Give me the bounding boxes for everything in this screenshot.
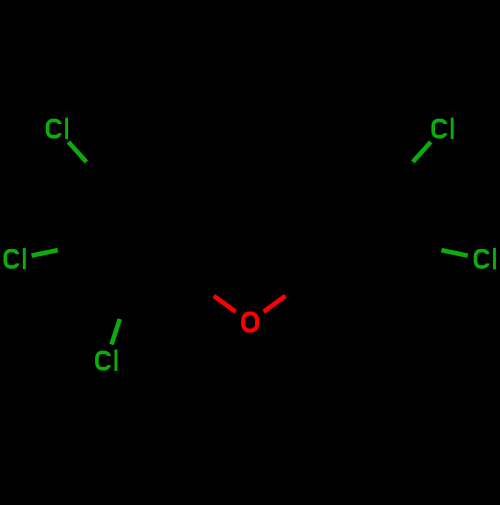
bond C-Cl1 (top-left): carbon half, black — [86, 162, 102, 180]
bond C-Cl5 (right): carbon half, black — [418, 245, 442, 250]
bond C8-C7 (left ring) — [81, 245, 127, 296]
atom label Cl (Cl1 top-left) — [48, 118, 68, 139]
bond C-Cl3 (bottom-left): carbon half, black — [120, 296, 127, 319]
bond C7-C6a (left ring) — [127, 282, 194, 296]
bond O-C (left): carbon half, black — [194, 282, 214, 296]
atom label O (furan oxygen) — [243, 314, 257, 331]
bond C6a-C9b fusion (left ring) — [194, 217, 215, 282]
bond C-Cl5 (right): chlorine half, green — [441, 250, 467, 256]
atom label Cl (Cl3 bottom-left) — [97, 350, 117, 371]
bond C1-C2 (right ring) — [397, 180, 418, 245]
bond C-Cl3 (bottom-left): chlorine half, green — [112, 319, 120, 345]
bond C-Cl4 (top-right): chlorine half, green — [413, 142, 431, 162]
bond O-C (left): oxygen half, red — [214, 296, 236, 312]
bond C9a-C9 (left ring) — [103, 166, 170, 180]
bond O-C (right): carbon half, black — [285, 282, 305, 296]
atom label Cl (Cl5 right) — [475, 248, 495, 269]
bond C-Cl2 (left): carbon half, black — [58, 245, 82, 250]
bond C-Cl4 (top-right): carbon half, black — [397, 162, 413, 180]
bond C4a-C4b fusion (right ring) — [284, 217, 305, 282]
bond C-Cl1 (top-left): chlorine half, green — [68, 142, 86, 162]
bond C9b-C4b (central furan fusion) — [215, 214, 283, 219]
bond O-C (right): oxygen half, red — [264, 296, 286, 312]
bond C2-C3 (right ring) — [372, 245, 418, 296]
bond C1a-C1 (right ring) — [330, 166, 397, 180]
bond C4b-C1a (right ring) — [284, 166, 330, 217]
atom label Cl (Cl2 left) — [5, 248, 25, 269]
bond C9-C8 (left ring) — [81, 180, 102, 245]
bond C9b-C9a (left ring) — [170, 166, 216, 217]
bond C3-C4a (right ring) — [305, 282, 372, 296]
atom label Cl (Cl4 top-right) — [433, 118, 453, 139]
bond C-Cl2 (left): chlorine half, green — [32, 250, 58, 256]
